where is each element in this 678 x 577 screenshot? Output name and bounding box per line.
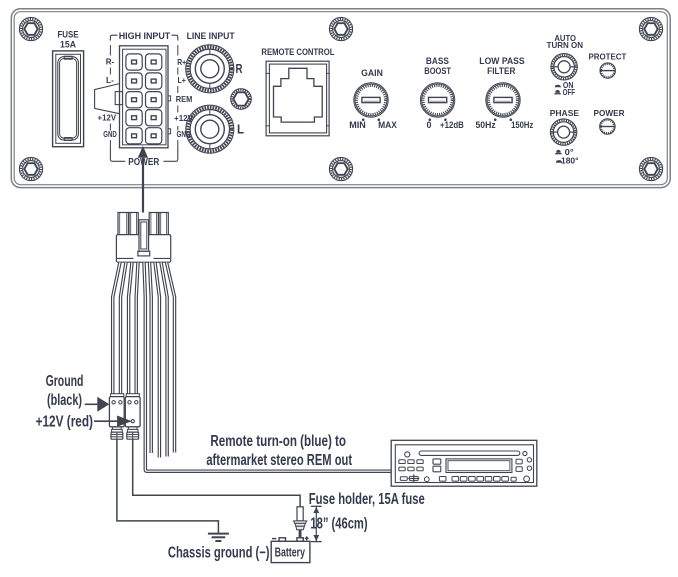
svg-text:Ground: Ground bbox=[46, 373, 84, 390]
svg-text:R: R bbox=[236, 62, 243, 76]
svg-text:LINE INPUT: LINE INPUT bbox=[187, 31, 235, 42]
inline fuse holder bbox=[294, 507, 307, 538]
mounting screw 5 bbox=[329, 157, 352, 180]
svg-text:+12dB: +12dB bbox=[440, 120, 464, 130]
svg-text:PHASE: PHASE bbox=[550, 108, 580, 118]
svg-text:180°: 180° bbox=[561, 156, 579, 165]
svg-text:MIN: MIN bbox=[349, 120, 366, 130]
RCA jack L bbox=[186, 105, 245, 153]
svg-text:R+: R+ bbox=[177, 57, 186, 67]
svg-text:GND: GND bbox=[103, 129, 117, 139]
head unit stereo bbox=[391, 440, 537, 486]
svg-text:PROTECT: PROTECT bbox=[588, 52, 627, 62]
fuse holder label FUSE 15A bbox=[58, 29, 79, 50]
GAIN knob bbox=[349, 68, 397, 130]
panel fuse holder bbox=[53, 51, 84, 147]
svg-text:L: L bbox=[237, 123, 244, 137]
svg-text:OFF: OFF bbox=[563, 88, 576, 97]
amplifier front panel bbox=[11, 9, 670, 188]
mounting screw 2 bbox=[329, 17, 352, 40]
Fuse holder label bbox=[309, 491, 425, 508]
svg-text:15A: 15A bbox=[60, 40, 76, 51]
18 inch label bbox=[310, 516, 367, 533]
arrow to +12V block bbox=[94, 416, 132, 427]
svg-text:18” (46cm): 18” (46cm) bbox=[310, 516, 367, 533]
svg-text:R-: R- bbox=[106, 56, 115, 66]
LINE INPUT label bbox=[187, 31, 235, 42]
ground wire bbox=[117, 439, 218, 533]
svg-text:+12V (red): +12V (red) bbox=[36, 414, 93, 431]
wiring harness plug bbox=[116, 213, 170, 263]
hex nut bbox=[231, 89, 252, 110]
svg-text:L-: L- bbox=[106, 75, 114, 85]
Remote turn-on label bbox=[206, 433, 352, 469]
REMOTE CONTROL label bbox=[261, 47, 334, 58]
svg-text:aftermarket stereo REM out: aftermarket stereo REM out bbox=[206, 452, 352, 469]
svg-text:BOOST: BOOST bbox=[424, 66, 451, 77]
svg-text:50Hz: 50Hz bbox=[476, 120, 497, 130]
PHASE switch bbox=[550, 108, 580, 165]
+12V terminal block bbox=[125, 394, 140, 427]
AUTO TURN ON switch bbox=[547, 33, 583, 97]
svg-text:0: 0 bbox=[427, 120, 432, 130]
svg-text:Battery: Battery bbox=[275, 545, 305, 559]
battery bbox=[271, 536, 310, 562]
remote control jack bbox=[266, 61, 329, 136]
18 inch dimension arrow bbox=[311, 506, 322, 541]
mounting screw 1 bbox=[19, 17, 42, 40]
svg-text:FILTER: FILTER bbox=[487, 66, 515, 77]
svg-text:L+: L+ bbox=[177, 75, 186, 85]
POWER LED bbox=[594, 108, 625, 134]
svg-text:MAX: MAX bbox=[378, 120, 397, 130]
svg-text:GAIN: GAIN bbox=[361, 68, 383, 79]
svg-text:Remote turn-on (blue) to: Remote turn-on (blue) to bbox=[210, 433, 346, 450]
mounting screw 4 bbox=[19, 157, 42, 180]
svg-text:(black): (black) bbox=[47, 392, 82, 409]
LOW PASS FILTER knob bbox=[476, 56, 534, 130]
mounting screw 3 bbox=[639, 17, 662, 40]
svg-text:POWER: POWER bbox=[594, 108, 625, 118]
butt connector left bbox=[111, 427, 123, 439]
arrow pointing to HIGH INPUT bbox=[138, 146, 148, 213]
+12V power wire bbox=[133, 439, 300, 507]
POWER bracket label bbox=[110, 146, 177, 168]
svg-text:+12V: +12V bbox=[98, 113, 117, 123]
RCA jack R bbox=[186, 45, 243, 93]
BASS BOOST knob bbox=[420, 56, 464, 130]
ground terminal block bbox=[109, 394, 124, 427]
svg-text:REMOTE CONTROL: REMOTE CONTROL bbox=[261, 47, 334, 58]
svg-text:Fuse holder, 15A fuse: Fuse holder, 15A fuse bbox=[309, 491, 425, 508]
butt connector right bbox=[127, 427, 139, 439]
HIGH INPUT label with bracket bbox=[110, 31, 177, 42]
svg-text:REM: REM bbox=[176, 94, 193, 104]
Ground (black) label bbox=[46, 373, 84, 409]
svg-text:HIGH INPUT: HIGH INPUT bbox=[119, 31, 171, 42]
PROTECT LED bbox=[588, 52, 627, 79]
svg-text:Chassis ground (−): Chassis ground (−) bbox=[168, 545, 270, 562]
arrow to ground block bbox=[85, 397, 110, 412]
svg-text:TURN ON: TURN ON bbox=[547, 40, 583, 50]
remote turn-on wire bbox=[144, 262, 391, 471]
left pin labels R- L- +12V GND bbox=[98, 45, 117, 146]
+12V (red) label bbox=[36, 414, 93, 431]
harness wire bundle bbox=[113, 262, 175, 457]
svg-text:150Hz: 150Hz bbox=[511, 120, 534, 130]
right pin labels R+ L+ REM +12V GND bbox=[174, 45, 193, 146]
connector side tab bbox=[95, 84, 123, 114]
mounting screw 6 bbox=[639, 157, 662, 180]
Chassis ground label bbox=[168, 545, 270, 562]
chassis ground symbol bbox=[208, 534, 229, 541]
high input 10-pin connector bbox=[120, 46, 171, 148]
